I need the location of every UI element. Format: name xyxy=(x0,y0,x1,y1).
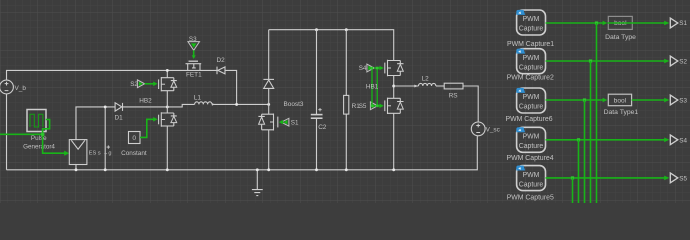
svg-text:S5: S5 xyxy=(359,103,367,110)
block PWM Capture5 xyxy=(507,166,554,202)
wire green through bool to S1 xyxy=(607,22,664,24)
svg-text:Capture: Capture xyxy=(519,64,544,71)
node dot R1 top xyxy=(345,28,348,31)
wire branch down at x=105 xyxy=(104,107,106,170)
node green junction row5 xyxy=(571,176,574,179)
node dot C2 bottom xyxy=(315,168,318,171)
node green junction row3 xyxy=(583,98,586,101)
svg-text:S1: S1 xyxy=(679,20,687,27)
resistor R1 xyxy=(344,30,361,170)
arrowhead green xyxy=(664,59,669,64)
svg-text:V_b: V_b xyxy=(15,85,27,92)
wire green S4 to HB1 upper gate xyxy=(374,67,380,69)
svg-text:RS: RS xyxy=(449,93,458,100)
svg-text:S3: S3 xyxy=(679,98,687,105)
svg-text:Capture: Capture xyxy=(519,26,544,33)
port S5 xyxy=(359,102,378,110)
arrowhead green xyxy=(664,138,669,143)
node dot ground tap xyxy=(256,168,259,171)
port S2 xyxy=(130,80,144,88)
svg-text:V_sc: V_sc xyxy=(486,127,501,134)
node dot xyxy=(104,168,107,171)
node dot xyxy=(75,168,78,171)
svg-text:Constant: Constant xyxy=(121,150,147,157)
wire green row4 to S4 xyxy=(546,139,665,141)
node dot HB2 mid xyxy=(166,105,169,108)
port S3 xyxy=(188,36,200,50)
node dot R1 bottom xyxy=(345,168,348,171)
ground xyxy=(252,170,263,196)
arrowhead green xyxy=(153,82,157,87)
wire green row2 to S2 xyxy=(546,60,665,62)
node green junction row4 xyxy=(577,138,580,141)
arrowhead green xyxy=(192,55,196,59)
wire green loop between S4 and S5 xyxy=(372,68,377,106)
svg-text:D1: D1 xyxy=(115,114,124,121)
wire green from Pulse Generator4 output xyxy=(43,120,65,154)
wire green row5 to S5 xyxy=(546,177,665,179)
svg-text:FET1: FET1 xyxy=(186,71,202,78)
svg-text:Generator4: Generator4 xyxy=(23,143,55,150)
arrowhead green into controlled source xyxy=(64,151,69,156)
constant block 0 xyxy=(121,132,147,158)
wire Boost3 source to rail xyxy=(268,130,270,170)
node dot xyxy=(166,168,169,171)
wire boost vertical top xyxy=(268,30,270,80)
wire diode to FET drain xyxy=(268,88,270,114)
data type conversion block bool (ghost) xyxy=(605,16,636,41)
transistor FET1 xyxy=(186,61,203,78)
block PWM Capture4 xyxy=(507,127,554,162)
transistor HB2 lower MOSFET xyxy=(159,112,177,126)
block PWM Capture6 xyxy=(506,88,553,123)
outport S4 xyxy=(670,135,687,145)
wire HB2 mid riser xyxy=(166,91,168,113)
node dot xyxy=(267,168,270,171)
node dot C2 top xyxy=(315,28,318,31)
pulse generator block Pulse Generator4 xyxy=(23,110,55,151)
svg-text:PWM Capture1: PWM Capture1 xyxy=(507,41,554,48)
node green junction row2 xyxy=(589,59,592,62)
node dot xyxy=(392,168,395,171)
wire green vertical from row1 xyxy=(596,23,598,203)
node HB2 top dot xyxy=(166,69,169,72)
svg-text:HB1: HB1 xyxy=(366,84,379,91)
svg-text:Capture: Capture xyxy=(519,143,544,150)
svg-text:ES s: ES s xyxy=(89,150,101,156)
wire HB1 mid to L2 xyxy=(394,85,419,87)
svg-text:bool: bool xyxy=(614,98,627,105)
wire green constant to HB2 lower gate xyxy=(140,119,153,137)
wire V_b bottom to bottom rail xyxy=(6,94,8,170)
svg-text:PWM Capture2: PWM Capture2 xyxy=(507,75,554,82)
svg-text:Capture: Capture xyxy=(519,104,544,111)
wire top rail from V_b to FET1 and D2 xyxy=(7,70,218,80)
port S1 xyxy=(281,118,299,126)
arrowhead green xyxy=(603,21,608,26)
svg-text:Boost3: Boost3 xyxy=(284,101,304,108)
svg-text:PWM: PWM xyxy=(523,172,540,179)
controlled voltage source (signal controlled) xyxy=(69,140,87,165)
wire green vertical from row5 xyxy=(572,178,574,203)
node green dots xyxy=(371,67,374,70)
bottom rail xyxy=(7,136,478,170)
svg-text:Pulse: Pulse xyxy=(31,135,47,142)
node green junction row1 xyxy=(595,21,598,24)
outport S5 xyxy=(670,173,687,183)
voltage source V_b xyxy=(0,80,26,94)
svg-text:L2: L2 xyxy=(422,75,430,82)
wire HB2 source to rail xyxy=(166,126,168,170)
voltage source V_sc xyxy=(471,122,500,136)
wire HB1 source to rail xyxy=(393,113,395,170)
wire D2 to L1 output node xyxy=(225,70,237,104)
diode D1 xyxy=(115,103,124,122)
svg-text:D2: D2 xyxy=(217,57,226,64)
wire D1 to HB2 mid and jog to L1 xyxy=(123,104,195,107)
wire L1 to boost node xyxy=(212,103,269,105)
svg-text:PWM Capture6: PWM Capture6 xyxy=(506,116,553,123)
svg-text:PWM: PWM xyxy=(523,55,540,62)
block PWM Capture2 xyxy=(507,49,554,82)
outport S1 xyxy=(670,18,687,28)
arrowhead green xyxy=(664,98,669,103)
transistor HB1 upper MOSFET xyxy=(385,60,404,76)
port S4 xyxy=(359,64,374,72)
svg-text:S4: S4 xyxy=(679,138,687,145)
wire green S3 to FET1 gate xyxy=(193,50,195,55)
svg-text:→g: →g xyxy=(103,150,112,156)
resistor RS xyxy=(444,83,463,99)
arrowhead green xyxy=(379,104,383,109)
arrowhead green xyxy=(603,98,608,103)
wire controlled source bottom to rail xyxy=(75,165,77,170)
wire green bool to S3 xyxy=(632,99,665,101)
transistor HB2 upper MOSFET xyxy=(159,70,177,91)
node dot HB1 mid xyxy=(392,85,395,88)
svg-text:PWM: PWM xyxy=(523,16,540,23)
wire top rail middle xyxy=(269,30,394,61)
svg-text:S4: S4 xyxy=(359,65,367,72)
inductor L2 xyxy=(414,75,436,87)
svg-text:S2: S2 xyxy=(679,59,687,66)
svg-text:Data Type: Data Type xyxy=(605,34,636,41)
wire green S2 to HB2 upper gate xyxy=(145,83,154,85)
diode boost (points up) xyxy=(263,79,274,88)
node junction green xyxy=(41,133,44,136)
arrowhead green xyxy=(664,176,669,181)
wire green vertical from row3 xyxy=(584,100,586,203)
wire green row3 to Data Type1 xyxy=(546,99,603,101)
wire controlled source top to D1 wire xyxy=(76,107,115,140)
wire green S5 to HB1 lower gate xyxy=(378,105,380,107)
svg-text:S1: S1 xyxy=(291,120,299,127)
svg-text:C2: C2 xyxy=(318,124,327,131)
inductor L1 xyxy=(194,94,215,105)
capacitor C2 xyxy=(311,30,327,170)
arrowhead green into Boost3 gate xyxy=(279,120,283,125)
plus sign xyxy=(107,145,110,148)
node dot xyxy=(104,105,107,108)
arrowhead green xyxy=(153,117,157,122)
wire RS to V_sc xyxy=(463,86,478,122)
node dot D2 junction xyxy=(235,103,238,106)
svg-text:Data Type1: Data Type1 xyxy=(604,109,639,116)
diode D2 xyxy=(217,57,226,74)
wire HB1 mid riser xyxy=(393,76,395,99)
wire green vertical from row4 xyxy=(578,140,580,203)
outport S3 xyxy=(670,95,687,105)
data type conversion block bool xyxy=(604,94,639,116)
wire green vertical from row2 xyxy=(590,61,592,203)
outport S2 xyxy=(670,56,687,66)
svg-text:PWM: PWM xyxy=(523,134,540,141)
arrowhead green xyxy=(664,21,669,26)
transistor HB1 lower MOSFET xyxy=(385,98,404,114)
wire green row1 to Data Type xyxy=(546,22,603,24)
svg-text:PWM: PWM xyxy=(523,94,540,101)
svg-text:PWM Capture4: PWM Capture4 xyxy=(507,155,554,162)
transistor Boost3 MOSFET (mirrored, gate right) xyxy=(258,114,277,131)
wire green from left edge xyxy=(0,133,43,135)
svg-text:L1: L1 xyxy=(194,94,202,101)
svg-text:0: 0 xyxy=(132,135,136,142)
node dot boost junction xyxy=(267,103,270,106)
svg-text:HB2: HB2 xyxy=(139,98,152,105)
wire L2 to RS xyxy=(436,85,444,87)
arrowhead green xyxy=(379,66,383,71)
block PWM Capture1 xyxy=(507,10,554,48)
svg-text:Capture: Capture xyxy=(519,181,544,188)
svg-text:S5: S5 xyxy=(679,176,687,183)
svg-text:PWM Capture5: PWM Capture5 xyxy=(507,194,554,201)
